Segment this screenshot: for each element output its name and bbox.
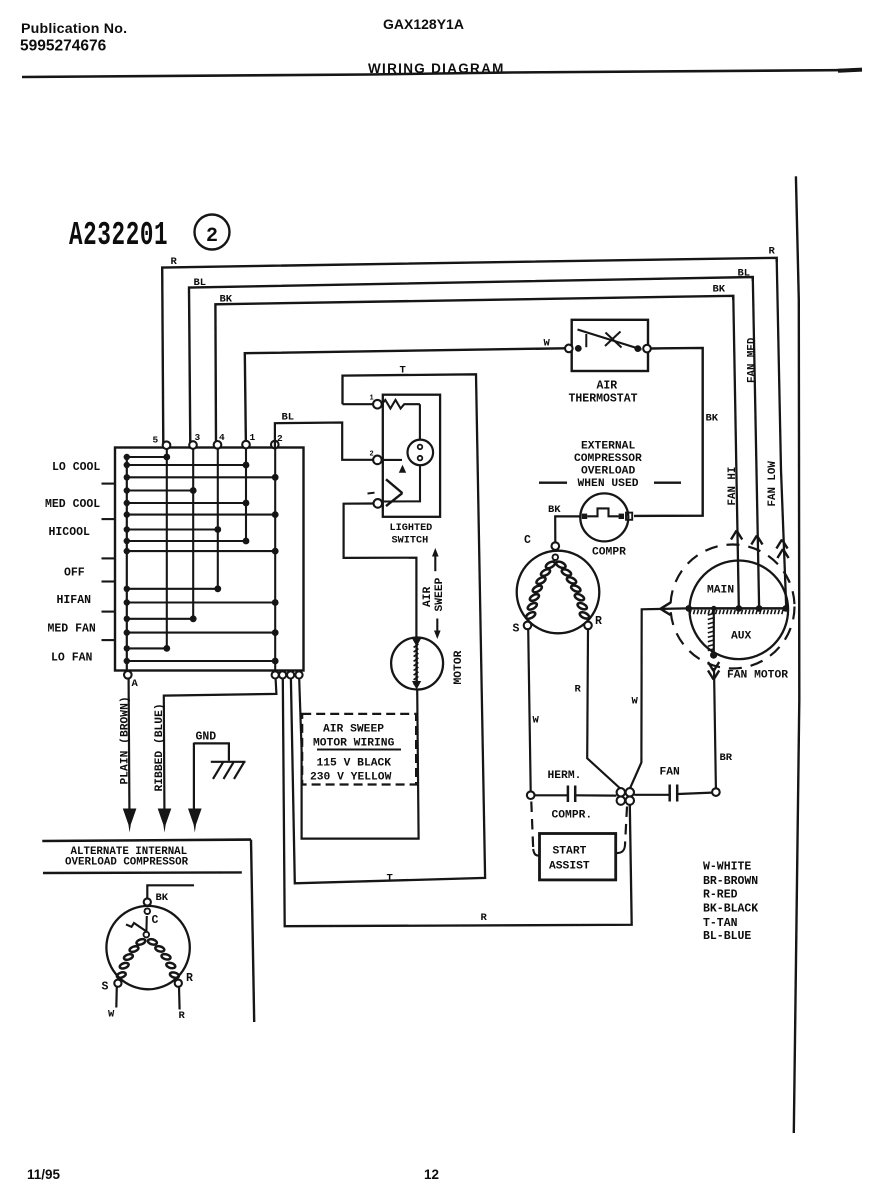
wire FAN MED [753, 278, 759, 607]
svg-text:C: C [524, 534, 531, 547]
wire switch to air sweep motor [344, 504, 417, 638]
svg-text:MED COOL: MED COOL [45, 498, 100, 511]
svg-text:BL: BL [194, 277, 207, 289]
fan motor circle [690, 561, 789, 660]
wire BL (top) [189, 277, 753, 445]
alternate terminal C [144, 898, 151, 905]
svg-text:SWITCH: SWITCH [392, 536, 429, 547]
start assist dashed lead left [531, 802, 533, 850]
svg-text:THERMOSTAT: THERMOSTAT [569, 393, 638, 406]
svg-text:LO COOL: LO COOL [52, 461, 100, 474]
alternate R lead [178, 987, 181, 1010]
svg-text:LO FAN: LO FAN [51, 652, 93, 665]
switch blade [386, 479, 402, 493]
arrow ribbed blue [158, 809, 172, 833]
svg-text:R: R [186, 972, 193, 985]
START ASSIST box [540, 834, 616, 880]
lamp circle [408, 440, 434, 466]
svg-text:W-WHITE: W-WHITE [703, 861, 751, 874]
svg-text:S: S [513, 623, 520, 636]
svg-text:12: 12 [424, 1167, 439, 1182]
svg-text:BR-BROWN: BR-BROWN [703, 875, 758, 888]
svg-text:3: 3 [195, 432, 201, 443]
svg-text:GAX128Y1A: GAX128Y1A [383, 16, 464, 32]
svg-text:FAN LOW: FAN LOW [767, 461, 779, 507]
bottom terminal cluster [272, 671, 279, 678]
air sweep pointer arrow down [436, 619, 438, 636]
wire GND [193, 743, 195, 809]
svg-text:R: R [769, 246, 776, 258]
air thermostat box [572, 320, 648, 371]
alternate overload frame mid [43, 871, 242, 874]
wire BK (top) [215, 296, 733, 445]
svg-text:MOTOR WIRING: MOTOR WIRING [313, 738, 395, 750]
thermostat sensor cross [606, 333, 622, 348]
svg-text:1: 1 [370, 395, 374, 403]
switch terminal 2 [373, 456, 382, 465]
terminal 2 [271, 441, 279, 449]
thermostat blade [578, 330, 642, 350]
wire RIBBED (BLUE) [164, 679, 277, 809]
terminal 4 column [217, 449, 219, 589]
alternate start winding [136, 938, 146, 946]
fan motor dashed plug circle [671, 545, 795, 669]
svg-text:5995274676: 5995274676 [20, 38, 107, 55]
svg-text:BK: BK [156, 892, 169, 904]
resistor in switch [382, 400, 420, 409]
terminal A [124, 671, 132, 679]
air sweep pointer arrow up [434, 552, 436, 571]
svg-text:FAN MED: FAN MED [747, 337, 759, 383]
svg-text:5: 5 [153, 435, 159, 446]
lamp return wire [383, 465, 421, 501]
svg-text:2: 2 [370, 451, 374, 459]
alternate overload frame top [42, 840, 251, 841]
herm capacitor [535, 794, 567, 796]
svg-text:W: W [108, 1009, 115, 1021]
svg-text:BK: BK [713, 284, 726, 296]
alternate S lead [115, 987, 118, 1008]
air sweep note dashed box [302, 714, 416, 785]
compressor run winding [555, 560, 566, 569]
wire BL to lighted switch [275, 423, 373, 460]
thermostat left contact stub [585, 334, 587, 347]
terminal 1 [242, 441, 250, 449]
svg-text:BL: BL [738, 268, 751, 280]
terminal R [584, 622, 592, 630]
wire BR aux to fan cap [708, 662, 714, 671]
svg-text:WHEN USED: WHEN USED [578, 478, 639, 490]
terminal 3 [189, 441, 197, 449]
svg-text:HIFAN: HIFAN [57, 594, 92, 607]
fixed contact arrow [382, 459, 402, 461]
svg-text:OVERLOAD: OVERLOAD [581, 466, 635, 478]
junction cluster [617, 788, 625, 796]
svg-text:MED FAN: MED FAN [48, 623, 96, 636]
svg-text:PLAIN (BROWN): PLAIN (BROWN) [120, 696, 132, 784]
svg-text:R: R [481, 912, 488, 924]
internal overload arm [145, 916, 147, 932]
svg-text:T: T [400, 365, 406, 377]
compressor circle [517, 551, 600, 634]
svg-text:COMPR.: COMPR. [552, 810, 593, 822]
motor winding bar [415, 643, 417, 685]
compressor start winding [545, 560, 556, 569]
svg-text:OVERLOAD COMPRESSOR: OVERLOAD COMPRESSOR [65, 857, 189, 869]
switch terminal 3 [374, 499, 383, 508]
svg-text:4: 4 [219, 432, 225, 443]
svg-text:T: T [387, 873, 393, 885]
terminal C [552, 542, 560, 550]
aux winding stub [713, 610, 715, 652]
svg-text:A232201: A232201 [69, 216, 168, 255]
wire FAN LOW [777, 259, 787, 607]
revision circle 2 [195, 215, 230, 250]
svg-text:AIR SWEEP: AIR SWEEP [323, 724, 384, 736]
rotary switch box [115, 448, 304, 671]
svg-text:BK-BLACK: BK-BLACK [703, 903, 758, 916]
svg-text:W: W [533, 715, 540, 727]
svg-text:GND: GND [196, 731, 217, 744]
svg-text:W: W [544, 338, 551, 350]
svg-text:COMPR: COMPR [592, 547, 626, 559]
alternate compressor BK lead [147, 885, 194, 898]
wire C to overload [555, 516, 580, 542]
long right vertical line [794, 176, 800, 1133]
svg-text:AIR: AIR [597, 380, 618, 393]
contact rows with junction dots [127, 456, 167, 458]
svg-text:MOTOR: MOTOR [453, 650, 465, 684]
svg-text:BK: BK [548, 504, 561, 516]
svg-text:ASSIST: ASSIST [549, 861, 590, 873]
terminal 1 column [245, 449, 247, 541]
fan motor winding bar [687, 607, 787, 609]
svg-text:R: R [179, 1010, 186, 1022]
svg-text:T-TAN: T-TAN [703, 917, 738, 930]
terminal 5 column [166, 449, 168, 649]
wire T loop (tan) [291, 374, 485, 883]
start assist dashed lead right [625, 807, 627, 846]
svg-text:230 V YELLOW: 230 V YELLOW [310, 772, 392, 784]
alternate overload frame right [251, 840, 254, 1022]
svg-text:11/95: 11/95 [27, 1167, 61, 1182]
svg-text:LIGHTED: LIGHTED [390, 523, 433, 534]
svg-text:MAIN: MAIN [707, 585, 734, 597]
overload COMPR circle [580, 493, 628, 541]
fan capacitor [634, 794, 669, 796]
arrow gnd [188, 809, 202, 833]
svg-text:BR: BR [720, 752, 733, 764]
overload element [582, 514, 587, 519]
svg-text:OFF: OFF [64, 567, 85, 580]
position tick marks [102, 483, 115, 485]
arrow plain brown [123, 809, 137, 833]
chassis ground symbol [211, 761, 246, 763]
svg-text:115 V BLACK: 115 V BLACK [317, 758, 392, 770]
svg-text:AUX: AUX [731, 631, 752, 643]
fan cap right terminal [712, 788, 720, 796]
svg-text:EXTERNAL: EXTERNAL [581, 441, 635, 453]
terminal 4 [214, 441, 222, 449]
svg-text:2: 2 [206, 225, 218, 248]
terminal 5 [163, 441, 171, 449]
wire W to air thermostat [245, 348, 565, 444]
svg-text:1: 1 [250, 432, 256, 443]
svg-text:Publication No.: Publication No. [21, 21, 127, 37]
svg-text:C: C [152, 914, 159, 927]
svg-text:BL-BLUE: BL-BLUE [703, 930, 751, 943]
herm cap terminal [527, 791, 535, 799]
terminal S [524, 622, 532, 630]
switch terminal 1 [343, 403, 374, 405]
svg-text:START: START [553, 846, 587, 858]
svg-text:R: R [171, 256, 178, 268]
svg-text:A: A [132, 678, 139, 690]
svg-text:COMPRESSOR: COMPRESSOR [574, 453, 642, 465]
svg-text:BK: BK [220, 294, 233, 306]
svg-text:R-RED: R-RED [703, 889, 738, 902]
air sweep motor return wire [299, 679, 418, 839]
wire R bottom [283, 679, 632, 927]
alternate terminal R [175, 980, 182, 987]
air sweep motor circle [391, 638, 443, 690]
svg-text:HERM.: HERM. [548, 770, 582, 782]
svg-text:2: 2 [277, 433, 283, 444]
svg-text:SWEEP: SWEEP [434, 577, 446, 611]
svg-text:RIBBED (BLUE): RIBBED (BLUE) [154, 703, 166, 791]
wire FAN HI [733, 297, 739, 607]
svg-text:HICOOL: HICOOL [49, 526, 91, 539]
header rule [22, 70, 858, 77]
thermostat left terminal [565, 345, 573, 353]
alternate compressor circle [106, 906, 189, 989]
common pole column [126, 457, 128, 671]
alternate run winding [147, 938, 157, 945]
wire R (top) [162, 258, 777, 445]
svg-text:R: R [595, 615, 602, 628]
svg-text:FAN MOTOR: FAN MOTOR [727, 670, 788, 682]
svg-text:BL: BL [282, 412, 295, 424]
wire W from S to herm cap [528, 629, 531, 791]
svg-text:W: W [632, 696, 639, 708]
fan common wire with connector arrow [630, 608, 687, 789]
alternate terminal S [114, 980, 121, 987]
lamp feed wire [419, 404, 421, 440]
svg-text:R: R [575, 684, 582, 696]
thermostat right terminal [634, 345, 641, 352]
svg-text:FAN HI: FAN HI [727, 467, 739, 506]
wire R from compressor to junction [587, 629, 621, 789]
svg-text:BK: BK [706, 413, 719, 425]
wire PLAIN (BROWN) from terminal A [128, 679, 131, 809]
wire BK thermostat to overload [634, 348, 703, 516]
terminal 2 column [274, 449, 276, 671]
svg-text:FAN: FAN [660, 767, 681, 779]
svg-text:AIR: AIR [422, 586, 434, 607]
lighted switch box [383, 395, 440, 517]
terminal 3 column [192, 449, 194, 619]
svg-text:S: S [102, 981, 109, 994]
